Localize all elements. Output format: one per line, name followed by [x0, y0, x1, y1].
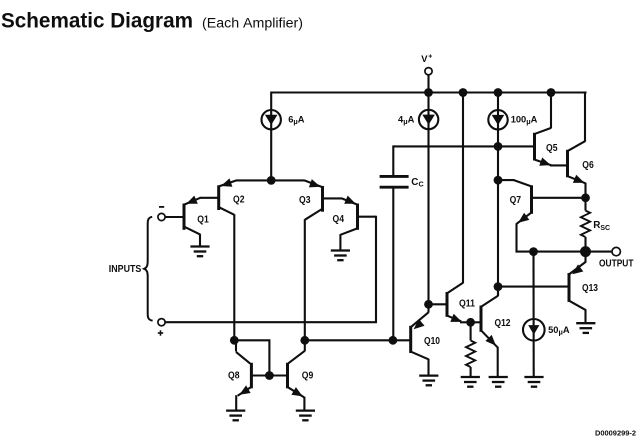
svg-text:100µA: 100µA: [511, 115, 538, 127]
node rail-100uA: [494, 88, 503, 97]
wire Q12 collector up: [497, 287, 499, 297]
wire Q8 base: [252, 374, 269, 376]
RSC label: [593, 220, 610, 232]
node output: [580, 246, 591, 257]
wire RSC top lead: [584, 198, 586, 211]
svg-text:+: +: [428, 54, 432, 61]
transistor Q10: [411, 312, 441, 359]
node Q11 base tap: [424, 300, 433, 309]
wire rail to 6uA: [270, 92, 272, 182]
svg-text:D0009299-2: D0009299-2: [595, 429, 636, 438]
wire Q9 emitter down: [303, 397, 305, 411]
transistor Q11: [447, 283, 475, 322]
wire -in to Q1 base: [165, 216, 184, 218]
wire Q4 collector down: [339, 234, 341, 250]
svg-text:Q11: Q11: [459, 298, 475, 309]
ground 50uA: [524, 377, 543, 387]
node Q3-Q9 collectors: [300, 336, 309, 345]
transistor Q9: [288, 351, 314, 398]
wire Q5 base line: [393, 145, 533, 147]
svg-text:Q6: Q6: [582, 160, 594, 171]
node Q12-Q13: [494, 282, 503, 291]
wire Q5 emitter to Q6 base: [550, 164, 566, 166]
wire Q13 base: [498, 286, 569, 288]
transistor Q13: [569, 262, 598, 310]
title text Schematic Diagram: [1, 9, 193, 33]
ground Q4: [331, 251, 350, 261]
current source 6uA: [262, 110, 305, 129]
resistor RSC: [581, 211, 590, 237]
INPUTS label: [109, 264, 142, 275]
svg-text:Q3: Q3: [299, 195, 311, 206]
figure number D0009299-2: [595, 429, 636, 438]
V+ terminal: [421, 54, 432, 75]
transistor Q7: [510, 180, 532, 224]
wire Q6 emitter down: [584, 183, 586, 198]
svg-text:Q4: Q4: [333, 214, 345, 225]
output terminal: [612, 247, 620, 255]
wire mirror line to Q10 base: [305, 339, 410, 341]
wire Q11 collector up: [462, 93, 464, 284]
svg-text:(Each Amplifier): (Each Amplifier): [202, 16, 303, 32]
wire resistor top lead: [470, 322, 472, 340]
wire Q7 collector left: [498, 179, 514, 181]
wire output line: [534, 251, 613, 253]
wire input emitter rail: [236, 179, 305, 181]
transistor Q6: [568, 141, 595, 183]
wire resistor bottom lead: [470, 367, 472, 377]
svg-text:CC: CC: [411, 177, 423, 189]
svg-text:Q1: Q1: [197, 214, 209, 225]
wire V+ to rail: [427, 75, 429, 93]
wire Q1 collector down: [199, 234, 201, 247]
wire Q13 emitter up: [584, 252, 586, 263]
wire Q8 emitter down: [235, 395, 237, 410]
node 50uA tap: [529, 247, 538, 256]
wire V+ rail: [271, 91, 586, 93]
wire Q8 diode tie: [234, 340, 269, 375]
transistor Q5: [535, 128, 558, 166]
wire Q7 base: [533, 197, 586, 199]
wire Q3 collector down: [304, 219, 306, 340]
wire Q4 base down to +input: [375, 216, 377, 323]
non-inverting input terminal: [158, 319, 165, 336]
current source 4uA: [398, 110, 438, 129]
wire Q2 collector down: [233, 214, 235, 340]
wire Q1 emitter to Q2 base: [200, 197, 219, 199]
svg-text:6µA: 6µA: [288, 115, 305, 127]
svg-text:INPUTS: INPUTS: [109, 264, 142, 275]
wire Q8 collector up: [236, 340, 250, 363]
wire +input line: [165, 321, 377, 323]
transistor Q8: [228, 363, 251, 396]
transistor Q1: [184, 196, 209, 235]
wire 50uA top lead: [532, 252, 534, 377]
wire Q7 emitter to output line: [517, 223, 534, 251]
node Q7 collector: [494, 176, 503, 185]
svg-text:Q7: Q7: [510, 195, 522, 206]
wire Cc bottom lead: [392, 188, 394, 340]
transistor Q3: [299, 179, 323, 220]
wire Q5 collector up: [550, 93, 552, 129]
node Q11-Q12-resistor: [466, 318, 475, 327]
wire Q11 base: [429, 303, 447, 305]
ground resistor: [461, 377, 480, 387]
svg-text:50µA: 50µA: [548, 325, 570, 337]
wire 100uA down to Q12 collector: [497, 93, 499, 297]
svg-text:Q9: Q9: [302, 370, 314, 381]
node Cc return: [389, 336, 398, 345]
wire Q3 base to Q4 emitter: [323, 197, 342, 199]
wire Q11 emitter to node: [460, 321, 471, 323]
node Q5 base - Cc: [494, 142, 503, 151]
ground Q8: [226, 411, 245, 421]
ground Q9: [296, 411, 315, 421]
transistor Q4: [333, 196, 358, 235]
svg-text:Q12: Q12: [495, 318, 511, 329]
ground Q12: [489, 377, 508, 387]
svg-text:Q8: Q8: [228, 370, 240, 381]
wire Q9 collector up: [304, 340, 306, 351]
svg-text:Q13: Q13: [582, 283, 598, 294]
svg-text:Schematic Diagram: Schematic Diagram: [1, 9, 193, 33]
wire Q13 collector down: [584, 309, 586, 323]
node Q8-Q9 bases: [265, 371, 274, 380]
node rail-Q5: [547, 88, 556, 97]
inputs brace: [144, 217, 152, 321]
wire Q12 base: [471, 321, 480, 323]
wire Q12 emitter down: [497, 347, 499, 377]
wire RSC bottom lead: [584, 237, 586, 252]
OUTPUT label: [599, 258, 634, 269]
wire Q6 collector up: [584, 92, 587, 142]
svg-text:4µA: 4µA: [398, 115, 415, 127]
transistor Q12: [481, 296, 511, 348]
ground Q1: [190, 247, 209, 257]
svg-text:OUTPUT: OUTPUT: [599, 258, 634, 269]
svg-text:Q10: Q10: [424, 336, 440, 347]
node rail-Q11: [459, 88, 468, 97]
svg-text:Q5: Q5: [546, 143, 558, 154]
node 6uA tail: [267, 176, 276, 185]
svg-text:Q2: Q2: [233, 195, 245, 206]
ground Q13: [576, 323, 595, 333]
wire Q10 emitter down: [427, 359, 429, 376]
capacitor Cc: [380, 176, 424, 188]
node rail-4uA: [424, 88, 433, 97]
transistor Q2: [219, 178, 245, 214]
current source 100uA: [488, 110, 537, 129]
subtitle (Each Amplifier): [202, 16, 303, 32]
wire Q4 base right: [358, 216, 376, 218]
inverting input terminal: [158, 207, 165, 221]
node Q2-Q8 collectors: [230, 336, 239, 345]
ground Q10: [419, 376, 438, 386]
node Q6-RSC-Q7base: [581, 193, 590, 202]
wire Q9 base: [269, 374, 287, 376]
wire 4uA down to Q10: [427, 93, 429, 313]
wire Cc top lead: [392, 145, 394, 175]
resistor Q11 emitter: [466, 341, 475, 368]
current source 50uA: [523, 319, 570, 341]
